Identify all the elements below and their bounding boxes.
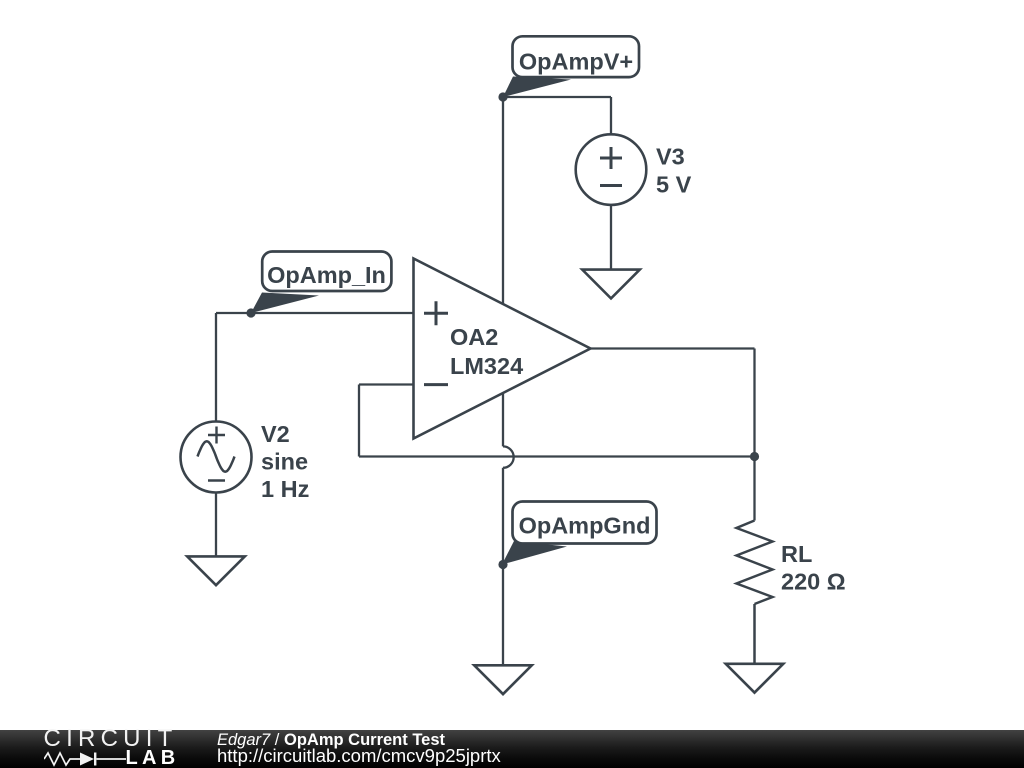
svg-text:sine: sine bbox=[261, 449, 308, 475]
svg-text:V3: V3 bbox=[656, 144, 685, 170]
svg-text:1 Hz: 1 Hz bbox=[261, 476, 309, 502]
svg-text:RL: RL bbox=[781, 541, 812, 567]
svg-text:5 V: 5 V bbox=[656, 172, 692, 198]
svg-text:OpAmpGnd: OpAmpGnd bbox=[519, 513, 651, 539]
svg-text:OpAmp_In: OpAmp_In bbox=[267, 262, 386, 288]
svg-text:LM324: LM324 bbox=[450, 353, 523, 379]
svg-text:OA2: OA2 bbox=[450, 324, 498, 350]
svg-text:220 Ω: 220 Ω bbox=[781, 569, 846, 595]
svg-text:OpAmpV+: OpAmpV+ bbox=[519, 49, 633, 75]
svg-text:V2: V2 bbox=[261, 421, 290, 447]
